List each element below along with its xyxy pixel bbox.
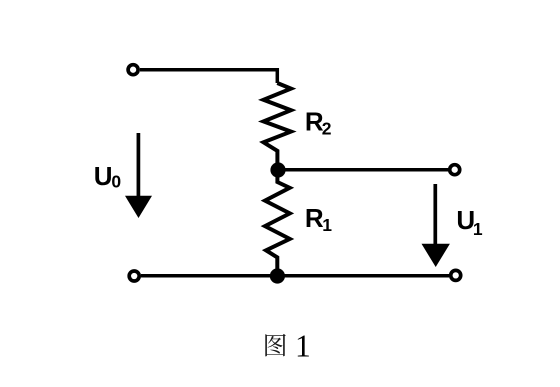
caption "图" (drawn as vector glyph) (265, 334, 286, 356)
node B (junction bottom) (270, 268, 285, 283)
terminal bottom-right (451, 270, 461, 280)
node A (junction R2/R1/output) (270, 162, 285, 177)
wire middle (node to right terminal) (285, 168, 449, 172)
svg-text:0: 0 (111, 172, 121, 192)
terminal top-right (450, 165, 460, 175)
svg-text:1: 1 (295, 328, 311, 363)
svg-text:R: R (305, 203, 324, 233)
svg-text:2: 2 (322, 119, 332, 139)
svg-text:1: 1 (322, 215, 332, 235)
wire top (140, 70, 277, 83)
wire bottom (141, 274, 449, 278)
resistor R1 (265, 177, 290, 269)
terminal top-left (128, 65, 138, 75)
svg-text:1: 1 (473, 219, 483, 239)
arrow U0 (137, 133, 141, 198)
svg-text:U: U (94, 161, 113, 191)
terminal bottom-left (129, 271, 139, 281)
arrow U1 (433, 184, 437, 246)
resistor R2 (264, 83, 292, 163)
